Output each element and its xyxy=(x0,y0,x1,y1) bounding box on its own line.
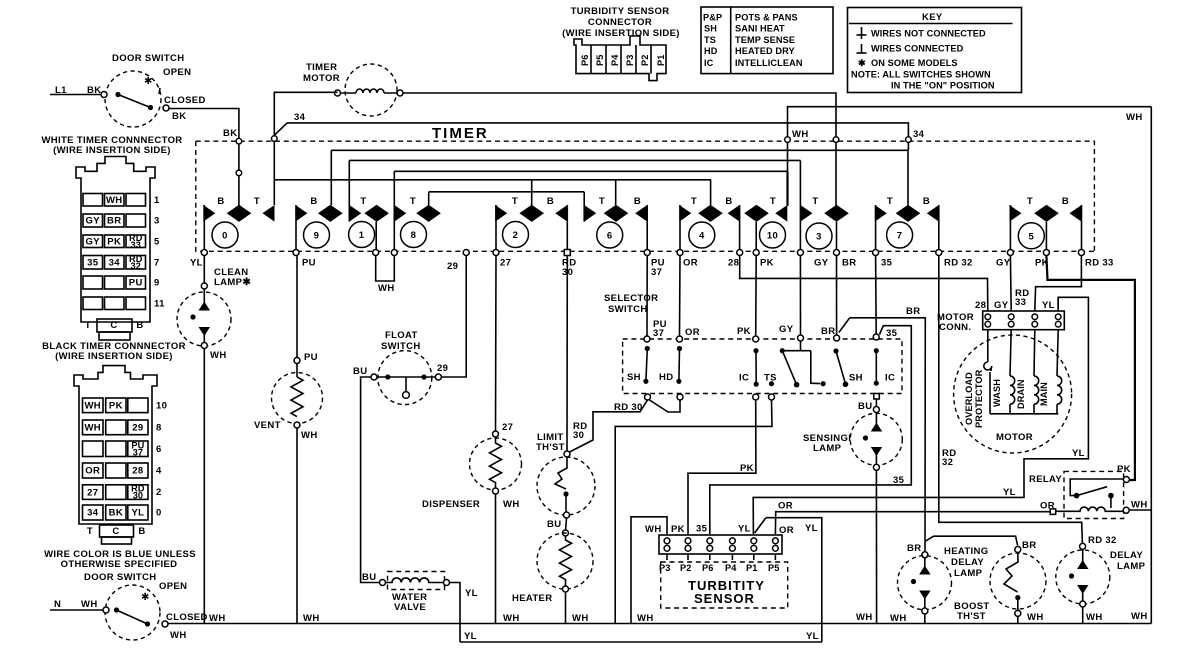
svg-text:3: 3 xyxy=(816,232,822,243)
svg-text:OR: OR xyxy=(779,525,794,536)
svg-text:P6: P6 xyxy=(580,55,590,66)
svg-text:✱: ✱ xyxy=(141,592,149,603)
svg-text:GY: GY xyxy=(814,258,829,269)
svg-text:WIRES NOT CONNECTED: WIRES NOT CONNECTED xyxy=(871,29,986,39)
svg-text:BR: BR xyxy=(821,326,835,337)
timer cam 10 (T) xyxy=(744,171,787,252)
svg-text:IN THE "ON" POSITION: IN THE "ON" POSITION xyxy=(891,81,995,91)
svg-text:WH: WH xyxy=(106,195,123,206)
timer cam 7 (T/B) xyxy=(875,150,939,252)
svg-text:WH: WH xyxy=(301,430,318,441)
svg-text:35: 35 xyxy=(881,258,893,269)
svg-text:WH: WH xyxy=(170,630,187,641)
selector IC contact (PK) xyxy=(739,348,759,387)
svg-text:34: 34 xyxy=(109,257,121,268)
svg-text:YL: YL xyxy=(465,588,478,599)
svg-text:WASH: WASH xyxy=(992,379,1002,407)
svg-text:8: 8 xyxy=(411,230,417,241)
timer cam 8 (T) xyxy=(394,171,441,252)
svg-text:P1: P1 xyxy=(656,55,666,66)
float switch S3 xyxy=(353,330,441,405)
svg-text:DELAY: DELAY xyxy=(951,557,984,568)
svg-text:FLOAT: FLOAT xyxy=(385,330,418,341)
wire BU float switch to water valve xyxy=(361,377,380,583)
svg-text:WH: WH xyxy=(1086,612,1103,623)
svg-text:TH'ST: TH'ST xyxy=(957,611,986,622)
timer cam 0 (B/T) xyxy=(203,180,274,253)
wire RD 33 (timer to motor connector) xyxy=(1015,256,1081,312)
svg-text:C: C xyxy=(110,320,117,331)
svg-text:BR: BR xyxy=(842,258,856,269)
svg-text:P1: P1 xyxy=(746,563,757,573)
svg-text:T: T xyxy=(410,196,416,207)
svg-text:B: B xyxy=(547,196,554,207)
svg-text:37: 37 xyxy=(653,328,664,339)
svg-text:WH: WH xyxy=(84,423,101,434)
svg-text:TS: TS xyxy=(704,35,716,45)
wire YL motor connector jog (vertical stub) xyxy=(1057,297,1059,311)
svg-text:C: C xyxy=(112,526,119,537)
svg-text:28: 28 xyxy=(975,300,986,311)
svg-text:30: 30 xyxy=(133,491,143,501)
svg-text:OPEN: OPEN xyxy=(163,67,191,78)
svg-text:29: 29 xyxy=(132,423,143,434)
svg-text:9: 9 xyxy=(154,278,160,289)
svg-text:P2: P2 xyxy=(640,55,650,66)
svg-text:28: 28 xyxy=(132,466,143,477)
wire RD 32 (timer to delay lamp) xyxy=(939,256,1117,547)
svg-text:37: 37 xyxy=(651,267,662,278)
svg-text:P2: P2 xyxy=(680,563,691,573)
svg-text:B: B xyxy=(634,196,641,207)
svg-text:PK: PK xyxy=(109,401,123,412)
svg-text:P4: P4 xyxy=(725,563,737,573)
wire PU 37 (timer to selector) xyxy=(647,256,667,340)
svg-text:BR: BR xyxy=(107,216,121,227)
heater R3 xyxy=(512,518,593,624)
svg-text:29: 29 xyxy=(447,261,458,272)
svg-text:P3: P3 xyxy=(625,55,635,66)
svg-text:3: 3 xyxy=(154,216,160,227)
selector SH contact 2 xyxy=(833,348,863,387)
wire GY (timer to motor connector) xyxy=(994,256,1011,312)
svg-text:IC: IC xyxy=(739,373,749,384)
svg-text:WH: WH xyxy=(84,401,101,412)
svg-text:B: B xyxy=(310,196,317,207)
svg-text:33: 33 xyxy=(1015,297,1026,308)
wire 27 (timer to dispenser) xyxy=(493,256,514,438)
door switch S2 (neutral N) xyxy=(50,572,208,641)
selector bottom terminals xyxy=(645,394,880,401)
svg-text:WH: WH xyxy=(209,613,226,624)
svg-text:PU: PU xyxy=(302,258,316,269)
wire WH heater to rail xyxy=(565,592,567,624)
limit thermostat S4 xyxy=(536,432,595,530)
svg-text:✱: ✱ xyxy=(858,58,866,68)
wire RD 30 branch to selector SH/HD xyxy=(570,400,681,452)
svg-text:WH: WH xyxy=(856,612,873,623)
svg-text:HD: HD xyxy=(659,372,673,383)
svg-text:27: 27 xyxy=(502,422,513,433)
white timer connector J1 xyxy=(41,135,182,340)
svg-text:WH: WH xyxy=(572,613,589,624)
motor M2 xyxy=(954,330,1072,453)
selector SH contact xyxy=(627,346,650,384)
svg-text:IC: IC xyxy=(704,58,714,68)
selector GY switch xyxy=(780,341,826,388)
svg-text:34: 34 xyxy=(913,129,925,140)
wire WH turbidity P3 to rail xyxy=(631,517,667,624)
svg-text:PK: PK xyxy=(740,463,754,474)
bus line L4 (cam0 T net to cam 4 diamond) xyxy=(274,179,711,181)
svg-text:YL: YL xyxy=(464,631,477,642)
svg-text:34: 34 xyxy=(294,112,306,123)
svg-text:YL: YL xyxy=(131,508,144,519)
svg-text:TS: TS xyxy=(764,373,777,384)
wire: timer motor output to cam 3 diamond xyxy=(403,93,839,206)
wire WH right side vertical xyxy=(1150,107,1152,624)
wire WH sensing lamp to rail xyxy=(875,470,877,623)
svg-text:CONNECTOR: CONNECTOR xyxy=(588,17,652,28)
timer cam 5 (T/B) xyxy=(1010,196,1082,253)
svg-text:T: T xyxy=(254,196,260,207)
bus line L2 (cam 1 T to cam 3 left) xyxy=(349,159,800,161)
svg-text:BR: BR xyxy=(907,543,921,554)
wire OR turbidity P5 to relay xyxy=(775,501,1050,535)
wire YL turbidity P1 branch to YL rail xyxy=(755,518,822,642)
wire 29 (timer to float switch) xyxy=(437,256,466,378)
svg-text:GY: GY xyxy=(86,216,101,227)
svg-text:YL: YL xyxy=(738,524,751,535)
wire WH U-loop between cam1 and cam8 terminals xyxy=(376,256,395,295)
terminal wire labels xyxy=(190,258,1114,279)
svg-text:GY: GY xyxy=(779,324,794,335)
svg-text:WH: WH xyxy=(792,129,809,140)
svg-text:P&P: P&P xyxy=(703,13,722,23)
svg-text:5: 5 xyxy=(1028,231,1034,242)
selector top terminals xyxy=(644,334,879,342)
svg-text:T: T xyxy=(512,196,518,207)
svg-text:DOOR SWITCH: DOOR SWITCH xyxy=(112,53,184,64)
clean lamp DS1 xyxy=(177,256,251,362)
svg-text:P5: P5 xyxy=(595,55,605,66)
svg-text:27: 27 xyxy=(87,487,98,498)
legend box (P&P etc) xyxy=(701,7,833,74)
door switch S1 (line L1) xyxy=(50,53,206,127)
svg-text:IC: IC xyxy=(885,373,895,384)
svg-text:(WIRE INSERTION SIDE): (WIRE INSERTION SIDE) xyxy=(53,145,171,156)
svg-text:LAMP: LAMP xyxy=(954,568,983,579)
svg-text:GY: GY xyxy=(994,300,1009,311)
svg-text:WH: WH xyxy=(1131,611,1148,622)
svg-text:WH: WH xyxy=(210,350,227,361)
svg-text:INTELLICLEAN: INTELLICLEAN xyxy=(735,58,803,68)
svg-text:TURBIDITY SENSOR: TURBIDITY SENSOR xyxy=(571,6,670,17)
relay K1 xyxy=(1029,471,1151,518)
svg-text:4: 4 xyxy=(156,466,162,477)
turbidity sensor connector block xyxy=(645,524,794,574)
svg-text:LAMP: LAMP xyxy=(1117,561,1146,572)
svg-text:B: B xyxy=(725,196,732,207)
svg-text:B: B xyxy=(217,196,224,207)
wire PK (timer to relay) xyxy=(1046,256,1135,481)
svg-text:T: T xyxy=(812,196,818,207)
svg-text:T: T xyxy=(360,196,366,207)
svg-text:WH: WH xyxy=(1126,112,1143,123)
svg-text:YL: YL xyxy=(1003,487,1016,498)
svg-text:PROTECTOR: PROTECTOR xyxy=(974,369,984,428)
svg-text:PU: PU xyxy=(129,278,143,289)
svg-text:RELAY: RELAY xyxy=(1029,474,1062,485)
svg-text:6: 6 xyxy=(156,444,162,455)
svg-text:YL: YL xyxy=(190,258,203,269)
svg-text:P5: P5 xyxy=(768,563,779,573)
svg-text:TIMER: TIMER xyxy=(432,125,489,142)
svg-text:BR: BR xyxy=(906,306,920,317)
svg-text:CONN.: CONN. xyxy=(939,322,971,333)
svg-text:5: 5 xyxy=(154,236,160,247)
svg-text:WH: WH xyxy=(378,283,395,294)
selector HD contact xyxy=(659,346,682,384)
svg-text:YL: YL xyxy=(1042,300,1055,311)
wire OR (timer to selector) xyxy=(680,256,700,339)
svg-text:37: 37 xyxy=(133,447,143,457)
svg-text:DISPENSER: DISPENSER xyxy=(422,499,480,510)
svg-text:PK: PK xyxy=(1117,464,1131,475)
svg-text:7: 7 xyxy=(897,231,903,242)
wire WH dispenser to rail xyxy=(495,494,497,624)
svg-text:30: 30 xyxy=(573,430,584,441)
wire BU selector to sensing lamp xyxy=(858,399,879,413)
delay lamp DS4 xyxy=(1056,543,1146,623)
selector IC contact 2 (35) xyxy=(874,348,896,386)
timer motor M1 xyxy=(303,62,403,116)
wire YL rail (bottom) xyxy=(460,631,822,642)
svg-text:2: 2 xyxy=(156,487,162,498)
svg-text:RD 32: RD 32 xyxy=(944,258,973,269)
wire WH clean lamp to rail xyxy=(203,349,205,624)
svg-text:4: 4 xyxy=(699,231,705,242)
svg-text:BU: BU xyxy=(353,366,367,377)
svg-text:PK: PK xyxy=(671,524,685,535)
svg-text:TIMER: TIMER xyxy=(306,62,337,73)
svg-text:1: 1 xyxy=(359,230,365,241)
svg-text:35: 35 xyxy=(87,257,99,268)
svg-text:DOOR SWITCH: DOOR SWITCH xyxy=(84,572,156,583)
wire GY (timer to selector) xyxy=(779,256,801,337)
svg-text:9: 9 xyxy=(314,231,320,242)
wire YL turbidity P1 to motor xyxy=(753,297,1088,534)
svg-text:(WIRE INSERTION SIDE): (WIRE INSERTION SIDE) xyxy=(55,351,173,362)
timer cam 2 (T/B) xyxy=(495,180,567,253)
svg-text:SH: SH xyxy=(849,373,863,384)
svg-text:8: 8 xyxy=(156,422,162,433)
svg-text:GY: GY xyxy=(996,258,1011,269)
black timer connector J2 xyxy=(42,341,186,544)
svg-text:LAMP: LAMP xyxy=(813,443,842,454)
timer cam 3 (T) xyxy=(800,160,848,252)
svg-text:WH: WH xyxy=(81,599,98,610)
turbidity sensor connector (top, wire insertion side) xyxy=(562,6,680,81)
wire WH vent to rail xyxy=(296,428,298,624)
svg-text:T: T xyxy=(599,196,605,207)
svg-text:B: B xyxy=(1062,196,1069,207)
water valve L2 coil xyxy=(362,572,450,614)
svg-text:SH: SH xyxy=(627,372,641,383)
svg-text:0: 0 xyxy=(156,508,162,519)
svg-text:32: 32 xyxy=(942,457,953,468)
svg-text:BU: BU xyxy=(858,401,872,412)
svg-text:T: T xyxy=(887,196,893,207)
sensing lamp DS2 xyxy=(803,412,902,470)
svg-text:BU: BU xyxy=(362,572,376,583)
wire 34 xyxy=(274,112,924,150)
svg-text:T: T xyxy=(770,196,776,207)
svg-text:BR: BR xyxy=(1022,540,1036,551)
svg-text:TEMP SENSE: TEMP SENSE xyxy=(735,35,795,45)
svg-text:WH: WH xyxy=(637,613,654,624)
svg-text:SWITCH: SWITCH xyxy=(608,304,648,315)
wire BR selector to heating delay lamp xyxy=(839,306,926,554)
svg-text:SENSOR: SENSOR xyxy=(694,591,755,606)
svg-text:(WIRE INSERTION SIDE): (WIRE INSERTION SIDE) xyxy=(562,28,680,39)
wire BR branch to boost thermostat xyxy=(925,536,1036,551)
svg-text:SH: SH xyxy=(704,24,717,34)
wire WH top line to cam 10 T contact xyxy=(785,107,1152,206)
bus line L1 (cam 9 diamond to 34 node) xyxy=(331,149,908,151)
svg-text:WH: WH xyxy=(645,524,662,535)
svg-text:ON SOME MODELS: ON SOME MODELS xyxy=(871,58,958,68)
motor connector block xyxy=(937,311,1064,333)
wire WH selector to WH rail xyxy=(615,400,772,624)
svg-text:KEY: KEY xyxy=(922,12,943,23)
wire 35 (timer to selector) xyxy=(876,256,898,340)
svg-text:35: 35 xyxy=(886,328,898,339)
svg-text:PK: PK xyxy=(107,236,121,247)
wire YL water valve to YL rail xyxy=(450,583,478,643)
svg-text:BK: BK xyxy=(223,128,237,139)
svg-text:P4: P4 xyxy=(610,54,620,66)
svg-text:BK: BK xyxy=(172,111,186,122)
svg-text:YL: YL xyxy=(806,631,819,642)
svg-text:POTS & PANS: POTS & PANS xyxy=(735,13,798,23)
svg-text:GY: GY xyxy=(86,236,101,247)
svg-text:CLOSED: CLOSED xyxy=(164,95,206,106)
svg-text:11: 11 xyxy=(154,298,165,309)
svg-text:WH: WH xyxy=(503,613,520,624)
svg-text:RD 33: RD 33 xyxy=(1085,258,1114,269)
svg-text:32: 32 xyxy=(131,261,141,271)
svg-text:HEATED DRY: HEATED DRY xyxy=(735,46,795,56)
svg-text:CLOSED: CLOSED xyxy=(166,612,208,623)
svg-text:YL: YL xyxy=(805,523,818,534)
svg-text:DRAIN: DRAIN xyxy=(1016,379,1026,409)
svg-text:7: 7 xyxy=(154,257,160,268)
svg-text:33: 33 xyxy=(131,240,141,250)
svg-text:34: 34 xyxy=(87,508,99,519)
svg-text:SANI HEAT: SANI HEAT xyxy=(735,24,785,34)
svg-text:WH: WH xyxy=(503,499,520,510)
svg-text:HD: HD xyxy=(704,46,718,56)
svg-text:B: B xyxy=(923,196,930,207)
timer terminals on bottom dashed line xyxy=(201,250,1084,256)
svg-text:HEATING: HEATING xyxy=(944,546,989,557)
svg-text:RD 32: RD 32 xyxy=(1088,535,1117,546)
svg-text:WIRES CONNECTED: WIRES CONNECTED xyxy=(871,44,964,54)
svg-text:28: 28 xyxy=(728,258,739,269)
svg-text:PK: PK xyxy=(737,326,751,337)
svg-text:B: B xyxy=(138,526,145,537)
svg-text:MOTOR: MOTOR xyxy=(303,73,340,84)
svg-text:OVERLOAD: OVERLOAD xyxy=(964,372,974,425)
wire 35 (selector to turbidity P6) xyxy=(696,326,911,535)
selector TS contact xyxy=(764,373,777,387)
dispenser resistor R2 xyxy=(422,437,522,510)
svg-text:WH: WH xyxy=(1027,612,1044,623)
svg-text:10: 10 xyxy=(156,400,167,411)
svg-text:✱: ✱ xyxy=(144,76,152,87)
selector switch box xyxy=(604,293,902,394)
wire BR (timer to selector) xyxy=(821,256,837,338)
bus line L5 (cam 8 diamond to cam 6 left) xyxy=(429,191,585,193)
key box xyxy=(848,8,1022,93)
svg-text:DELAY: DELAY xyxy=(1110,550,1143,561)
svg-text:OR: OR xyxy=(778,501,793,512)
wire PK selector to turbidity P2 xyxy=(688,400,756,534)
svg-text:SELECTOR: SELECTOR xyxy=(604,293,658,304)
wire: timer motor feed (cam 0 T contact net) xyxy=(272,92,338,180)
svg-text:LAMP✱: LAMP✱ xyxy=(214,277,251,288)
svg-text:TH'ST: TH'ST xyxy=(536,442,565,453)
timer cam 1 (T) xyxy=(349,160,389,252)
svg-text:VALVE: VALVE xyxy=(394,602,426,613)
heating delay lamp DS3 xyxy=(898,546,989,624)
svg-text:WH: WH xyxy=(890,613,907,624)
svg-text:YL: YL xyxy=(1072,448,1085,459)
svg-text:T: T xyxy=(1027,196,1033,207)
svg-text:OPEN: OPEN xyxy=(159,581,187,592)
svg-text:T: T xyxy=(85,320,91,331)
bus line L3 (cam 8 T to cam 10 T) xyxy=(394,170,787,172)
svg-text:BU: BU xyxy=(547,519,561,530)
svg-text:WH: WH xyxy=(303,613,320,624)
wire PK (timer to selector) xyxy=(737,256,756,338)
timer cam 9 (B) xyxy=(295,150,342,252)
timer cam 4 (T/B) xyxy=(679,180,739,253)
svg-text:OR: OR xyxy=(1040,501,1055,512)
svg-text:N: N xyxy=(54,599,61,610)
wire RD 30 (timer to limit thermostat) xyxy=(567,256,587,452)
svg-text:BK: BK xyxy=(109,508,123,519)
svg-text:NOTE: ALL SWITCHES SHOWN: NOTE: ALL SWITCHES SHOWN xyxy=(851,70,991,80)
wire WH rail (bottom) xyxy=(168,611,1151,624)
svg-text:35: 35 xyxy=(696,524,708,535)
svg-text:0: 0 xyxy=(222,231,228,242)
svg-text:2: 2 xyxy=(513,230,519,241)
note: wire color xyxy=(44,549,196,570)
svg-text:10: 10 xyxy=(767,231,778,242)
svg-text:RD 30: RD 30 xyxy=(614,402,643,413)
timer box (dashed) xyxy=(196,125,1095,251)
svg-text:WH: WH xyxy=(1131,500,1148,511)
turbidity sensor dashed box xyxy=(661,562,788,608)
svg-text:B: B xyxy=(136,320,143,331)
svg-text:1: 1 xyxy=(154,195,160,206)
timer cam 6 (T/B) xyxy=(584,180,647,253)
svg-text:P6: P6 xyxy=(702,563,713,573)
svg-text:OR: OR xyxy=(685,327,700,338)
svg-text:VENT: VENT xyxy=(254,420,281,431)
